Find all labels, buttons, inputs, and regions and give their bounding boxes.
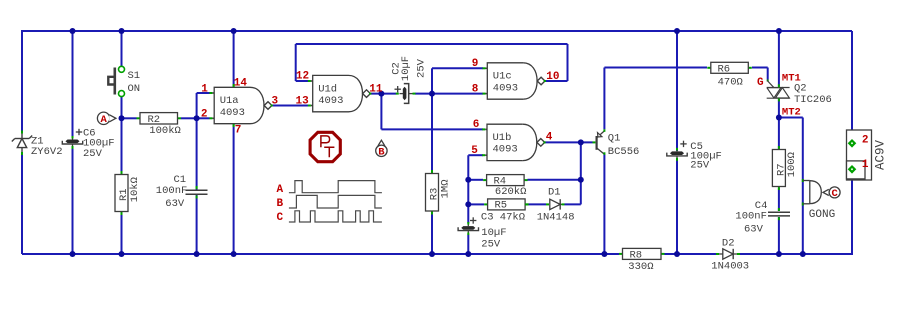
svg-text:620kΩ: 620kΩ bbox=[495, 186, 527, 198]
svg-text:100kΩ: 100kΩ bbox=[149, 125, 181, 137]
svg-text:1N4003: 1N4003 bbox=[711, 261, 749, 273]
svg-text:47kΩ: 47kΩ bbox=[500, 211, 525, 223]
svg-text:63V: 63V bbox=[165, 198, 185, 210]
svg-text:8: 8 bbox=[472, 84, 479, 96]
svg-text:Q1: Q1 bbox=[608, 132, 621, 144]
svg-text:25V: 25V bbox=[481, 238, 501, 250]
svg-text:12: 12 bbox=[296, 71, 309, 83]
svg-text:10kΩ: 10kΩ bbox=[129, 177, 141, 202]
svg-text:A: A bbox=[100, 114, 107, 126]
svg-text:D1: D1 bbox=[548, 186, 561, 198]
svg-text:1: 1 bbox=[201, 83, 208, 95]
svg-text:10µF: 10µF bbox=[481, 227, 506, 239]
svg-text:100nF: 100nF bbox=[156, 185, 188, 197]
svg-text:330Ω: 330Ω bbox=[628, 261, 653, 273]
svg-text:9: 9 bbox=[472, 58, 479, 70]
svg-text:10µF: 10µF bbox=[400, 56, 412, 81]
svg-text:63V: 63V bbox=[744, 224, 764, 236]
svg-text:C: C bbox=[831, 188, 838, 200]
svg-text:C3: C3 bbox=[481, 211, 494, 223]
svg-text:1: 1 bbox=[862, 159, 869, 171]
svg-text:25V: 25V bbox=[83, 148, 103, 160]
svg-text:25V: 25V bbox=[416, 58, 428, 78]
svg-text:ON: ON bbox=[128, 83, 141, 95]
svg-text:B: B bbox=[277, 198, 284, 210]
svg-text:3: 3 bbox=[272, 96, 279, 108]
svg-text:TIC206: TIC206 bbox=[794, 94, 832, 106]
svg-text:10: 10 bbox=[546, 71, 559, 83]
svg-text:14: 14 bbox=[234, 78, 248, 90]
svg-text:6: 6 bbox=[473, 119, 480, 131]
svg-text:4093: 4093 bbox=[220, 107, 245, 119]
svg-text:470Ω: 470Ω bbox=[718, 76, 743, 88]
svg-text:100nF: 100nF bbox=[735, 211, 767, 223]
svg-text:4: 4 bbox=[546, 132, 553, 144]
svg-text:U1d: U1d bbox=[318, 83, 337, 95]
svg-text:MT2: MT2 bbox=[782, 106, 801, 118]
svg-text:U1b: U1b bbox=[493, 132, 512, 144]
svg-text:GONG: GONG bbox=[809, 209, 835, 221]
svg-text:100Ω: 100Ω bbox=[786, 152, 798, 177]
svg-text:13: 13 bbox=[296, 95, 310, 107]
svg-text:R5: R5 bbox=[495, 200, 508, 212]
svg-text:AC9V: AC9V bbox=[873, 140, 887, 171]
svg-text:U1c: U1c bbox=[493, 71, 512, 83]
svg-text:S1: S1 bbox=[128, 70, 141, 82]
svg-text:C: C bbox=[277, 212, 284, 224]
svg-text:1MΩ: 1MΩ bbox=[439, 179, 451, 198]
svg-text:2: 2 bbox=[201, 108, 208, 120]
svg-text:BC556: BC556 bbox=[608, 146, 640, 158]
svg-text:U1a: U1a bbox=[220, 95, 239, 107]
svg-text:A: A bbox=[277, 184, 284, 196]
svg-text:5: 5 bbox=[471, 145, 478, 157]
svg-text:D2: D2 bbox=[722, 238, 735, 250]
svg-text:11: 11 bbox=[369, 84, 383, 96]
svg-text:4093: 4093 bbox=[493, 82, 518, 94]
svg-text:1N4148: 1N4148 bbox=[537, 211, 575, 223]
svg-text:4093: 4093 bbox=[318, 95, 343, 107]
svg-text:ZY6V2: ZY6V2 bbox=[31, 146, 63, 158]
svg-text:2: 2 bbox=[862, 134, 869, 146]
svg-text:G: G bbox=[757, 77, 764, 89]
svg-text:4093: 4093 bbox=[493, 144, 518, 156]
svg-text:R6: R6 bbox=[718, 64, 731, 76]
svg-text:25V: 25V bbox=[690, 159, 710, 171]
svg-text:B: B bbox=[378, 147, 385, 159]
svg-text:7: 7 bbox=[235, 125, 242, 137]
svg-text:R8: R8 bbox=[630, 250, 643, 262]
svg-text:Q2: Q2 bbox=[794, 82, 807, 94]
